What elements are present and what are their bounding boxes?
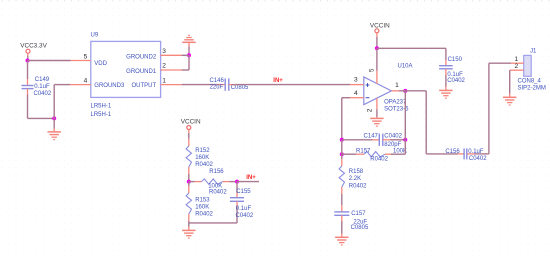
wire output down to C147 (404, 91, 406, 140)
svg-text:C149: C149 (35, 77, 50, 83)
svg-text:LR5H-1: LR5H-1 (91, 112, 112, 118)
ground (inverted above U9) (182, 35, 195, 46)
connector J1 CON8_4 (510, 48, 546, 91)
wire divider ground net (189, 222, 237, 224)
svg-text:820pF: 820pF (384, 142, 401, 148)
node C147 left junction (340, 138, 344, 142)
wire C146 to op-amp IN+ (236, 84, 351, 86)
svg-text:LR5H-1: LR5H-1 (91, 104, 112, 110)
svg-text:2.2K: 2.2K (349, 176, 361, 182)
node C147 right junction (403, 138, 407, 142)
svg-text:VCCIN: VCCIN (370, 23, 390, 30)
svg-text:R158: R158 (349, 169, 364, 175)
svg-text:U10A: U10A (398, 64, 413, 70)
net label IN+ (divider) (246, 175, 256, 181)
svg-text:C0402: C0402 (236, 213, 254, 219)
svg-text:GROUND3: GROUND3 (94, 83, 125, 89)
capacitor C156 (445, 148, 487, 162)
svg-text:C157: C157 (351, 211, 366, 217)
resistor R153 (186, 182, 213, 223)
svg-text:22uF: 22uF (210, 85, 224, 91)
wire junction to ground (53, 118, 55, 131)
svg-text:SIP2-2MM: SIP2-2MM (518, 85, 546, 91)
capacitor C157 (334, 194, 369, 234)
wire junction link (341, 140, 343, 154)
svg-text:0.1uF: 0.1uF (34, 84, 50, 90)
svg-text:C147: C147 (364, 134, 379, 140)
svg-text:R0402: R0402 (195, 212, 213, 218)
wire inverting input down (342, 98, 350, 140)
net label IN+ (273, 78, 283, 84)
node op-amp output junction (403, 89, 407, 93)
capacitor C150 (439, 57, 465, 87)
svg-text:J1: J1 (530, 48, 537, 54)
power flag VCC3.3V (20, 43, 47, 61)
svg-text:C0805: C0805 (231, 85, 249, 91)
wire stem to divider ground (188, 223, 190, 231)
svg-text:C0402: C0402 (447, 78, 465, 84)
svg-text:1: 1 (395, 82, 399, 89)
svg-text:2: 2 (162, 63, 166, 70)
svg-text:160K: 160K (195, 155, 209, 161)
svg-text:OUTPUT: OUTPUT (132, 83, 157, 89)
svg-text:VDD: VDD (94, 61, 107, 67)
svg-text:3: 3 (162, 48, 166, 55)
ground (divider) (182, 230, 195, 238)
svg-text:2: 2 (367, 108, 374, 112)
svg-text:C0402: C0402 (34, 91, 52, 97)
svg-text:VCC3.3V: VCC3.3V (20, 43, 47, 50)
wire C147 to R157 right (404, 140, 406, 154)
node U9 pin3 junction (187, 53, 191, 57)
svg-text:R0402: R0402 (195, 162, 213, 168)
wire C150 stem (445, 87, 447, 91)
svg-text:1: 1 (162, 78, 166, 85)
node VCCIN junction (375, 46, 379, 50)
wire VCC down to C149 (27, 61, 29, 80)
svg-text:U9: U9 (91, 33, 99, 39)
wire pin3 stub to node (182, 54, 189, 56)
svg-text:OPA237: OPA237 (384, 99, 407, 105)
svg-text:5: 5 (84, 53, 88, 60)
wire ground to pin3 node (188, 47, 190, 56)
resistor R152 (186, 139, 213, 174)
svg-text:0.1uF: 0.1uF (236, 206, 252, 212)
ground (J1) (503, 97, 516, 105)
wire pin2 to node (182, 55, 189, 70)
wire C156 to J1 pin1 (474, 63, 511, 154)
svg-text:1: 1 (515, 56, 519, 63)
capacitor C155 (230, 182, 254, 223)
svg-text:C0402: C0402 (384, 134, 402, 140)
capacitor C146 (209, 78, 249, 91)
node divider junction (187, 180, 191, 184)
power flag VCCIN (op-amp) (370, 23, 390, 49)
wire J1 pin2 to ground (509, 70, 511, 97)
wire output stub to node (399, 90, 405, 92)
wire R152 to divider node (188, 174, 190, 182)
svg-text:VCCIN: VCCIN (181, 119, 201, 126)
ground (op-amp) (370, 118, 383, 126)
svg-text:R0402: R0402 (370, 157, 388, 163)
svg-text:GROUND1: GROUND1 (126, 69, 157, 75)
svg-text:4: 4 (84, 77, 88, 84)
svg-text:R153: R153 (195, 198, 210, 204)
wire U9 GROUND3 down (54, 85, 70, 119)
capacitor C147 (342, 134, 406, 148)
svg-text:3: 3 (354, 76, 358, 83)
wire C157 stem (341, 234, 343, 238)
IC U9 LR5H-1 (70, 33, 182, 118)
node ground junction (52, 116, 56, 120)
svg-text:C0402: C0402 (469, 156, 487, 162)
ground (C157) (335, 237, 348, 245)
ground (C150) (439, 90, 452, 98)
svg-text:C155: C155 (236, 189, 251, 195)
svg-text:2: 2 (515, 63, 519, 70)
ground (48, 132, 61, 140)
svg-text:R0402: R0402 (209, 190, 227, 196)
node R157 left junction (340, 152, 344, 156)
svg-text:IN+: IN+ (273, 78, 283, 84)
svg-text:C156: C156 (445, 149, 460, 155)
power flag VCCIN (divider) (181, 119, 201, 139)
svg-text:C150: C150 (448, 57, 463, 63)
svg-text:CON8_4: CON8_4 (518, 78, 542, 84)
svg-text:R157: R157 (356, 148, 371, 154)
wire output to C156 (405, 91, 458, 154)
svg-text:4: 4 (354, 90, 358, 97)
svg-text:IN+: IN+ (246, 175, 256, 181)
wire U9 OUTPUT to C146 (182, 84, 219, 86)
capacitor C149 (22, 77, 52, 97)
resistor R156 (189, 169, 237, 196)
node VCC3.3V junction (26, 59, 30, 63)
svg-text:160K: 160K (195, 205, 209, 211)
wire VCC to U9 VDD (28, 60, 71, 62)
wire to IN+ label (237, 181, 259, 183)
svg-text:5: 5 (369, 68, 376, 72)
wire op-amp pin2 to ground (376, 110, 378, 119)
wire C149 to ground net (28, 95, 55, 119)
svg-text:C0805: C0805 (351, 225, 369, 231)
svg-text:R156: R156 (209, 169, 224, 175)
wire VCCIN to op-amp pin5 (376, 48, 378, 70)
wire VCCIN to C150 (377, 48, 446, 60)
node R156 C155 junction (235, 180, 239, 184)
svg-text:C146: C146 (209, 78, 224, 84)
resistor R158 (339, 154, 367, 194)
svg-text:R0402: R0402 (349, 183, 367, 189)
op-amp U10A OPA237 (350, 64, 413, 113)
svg-text:GROUND2: GROUND2 (126, 55, 157, 61)
resistor R157 (342, 148, 407, 162)
svg-text:R152: R152 (195, 148, 210, 154)
